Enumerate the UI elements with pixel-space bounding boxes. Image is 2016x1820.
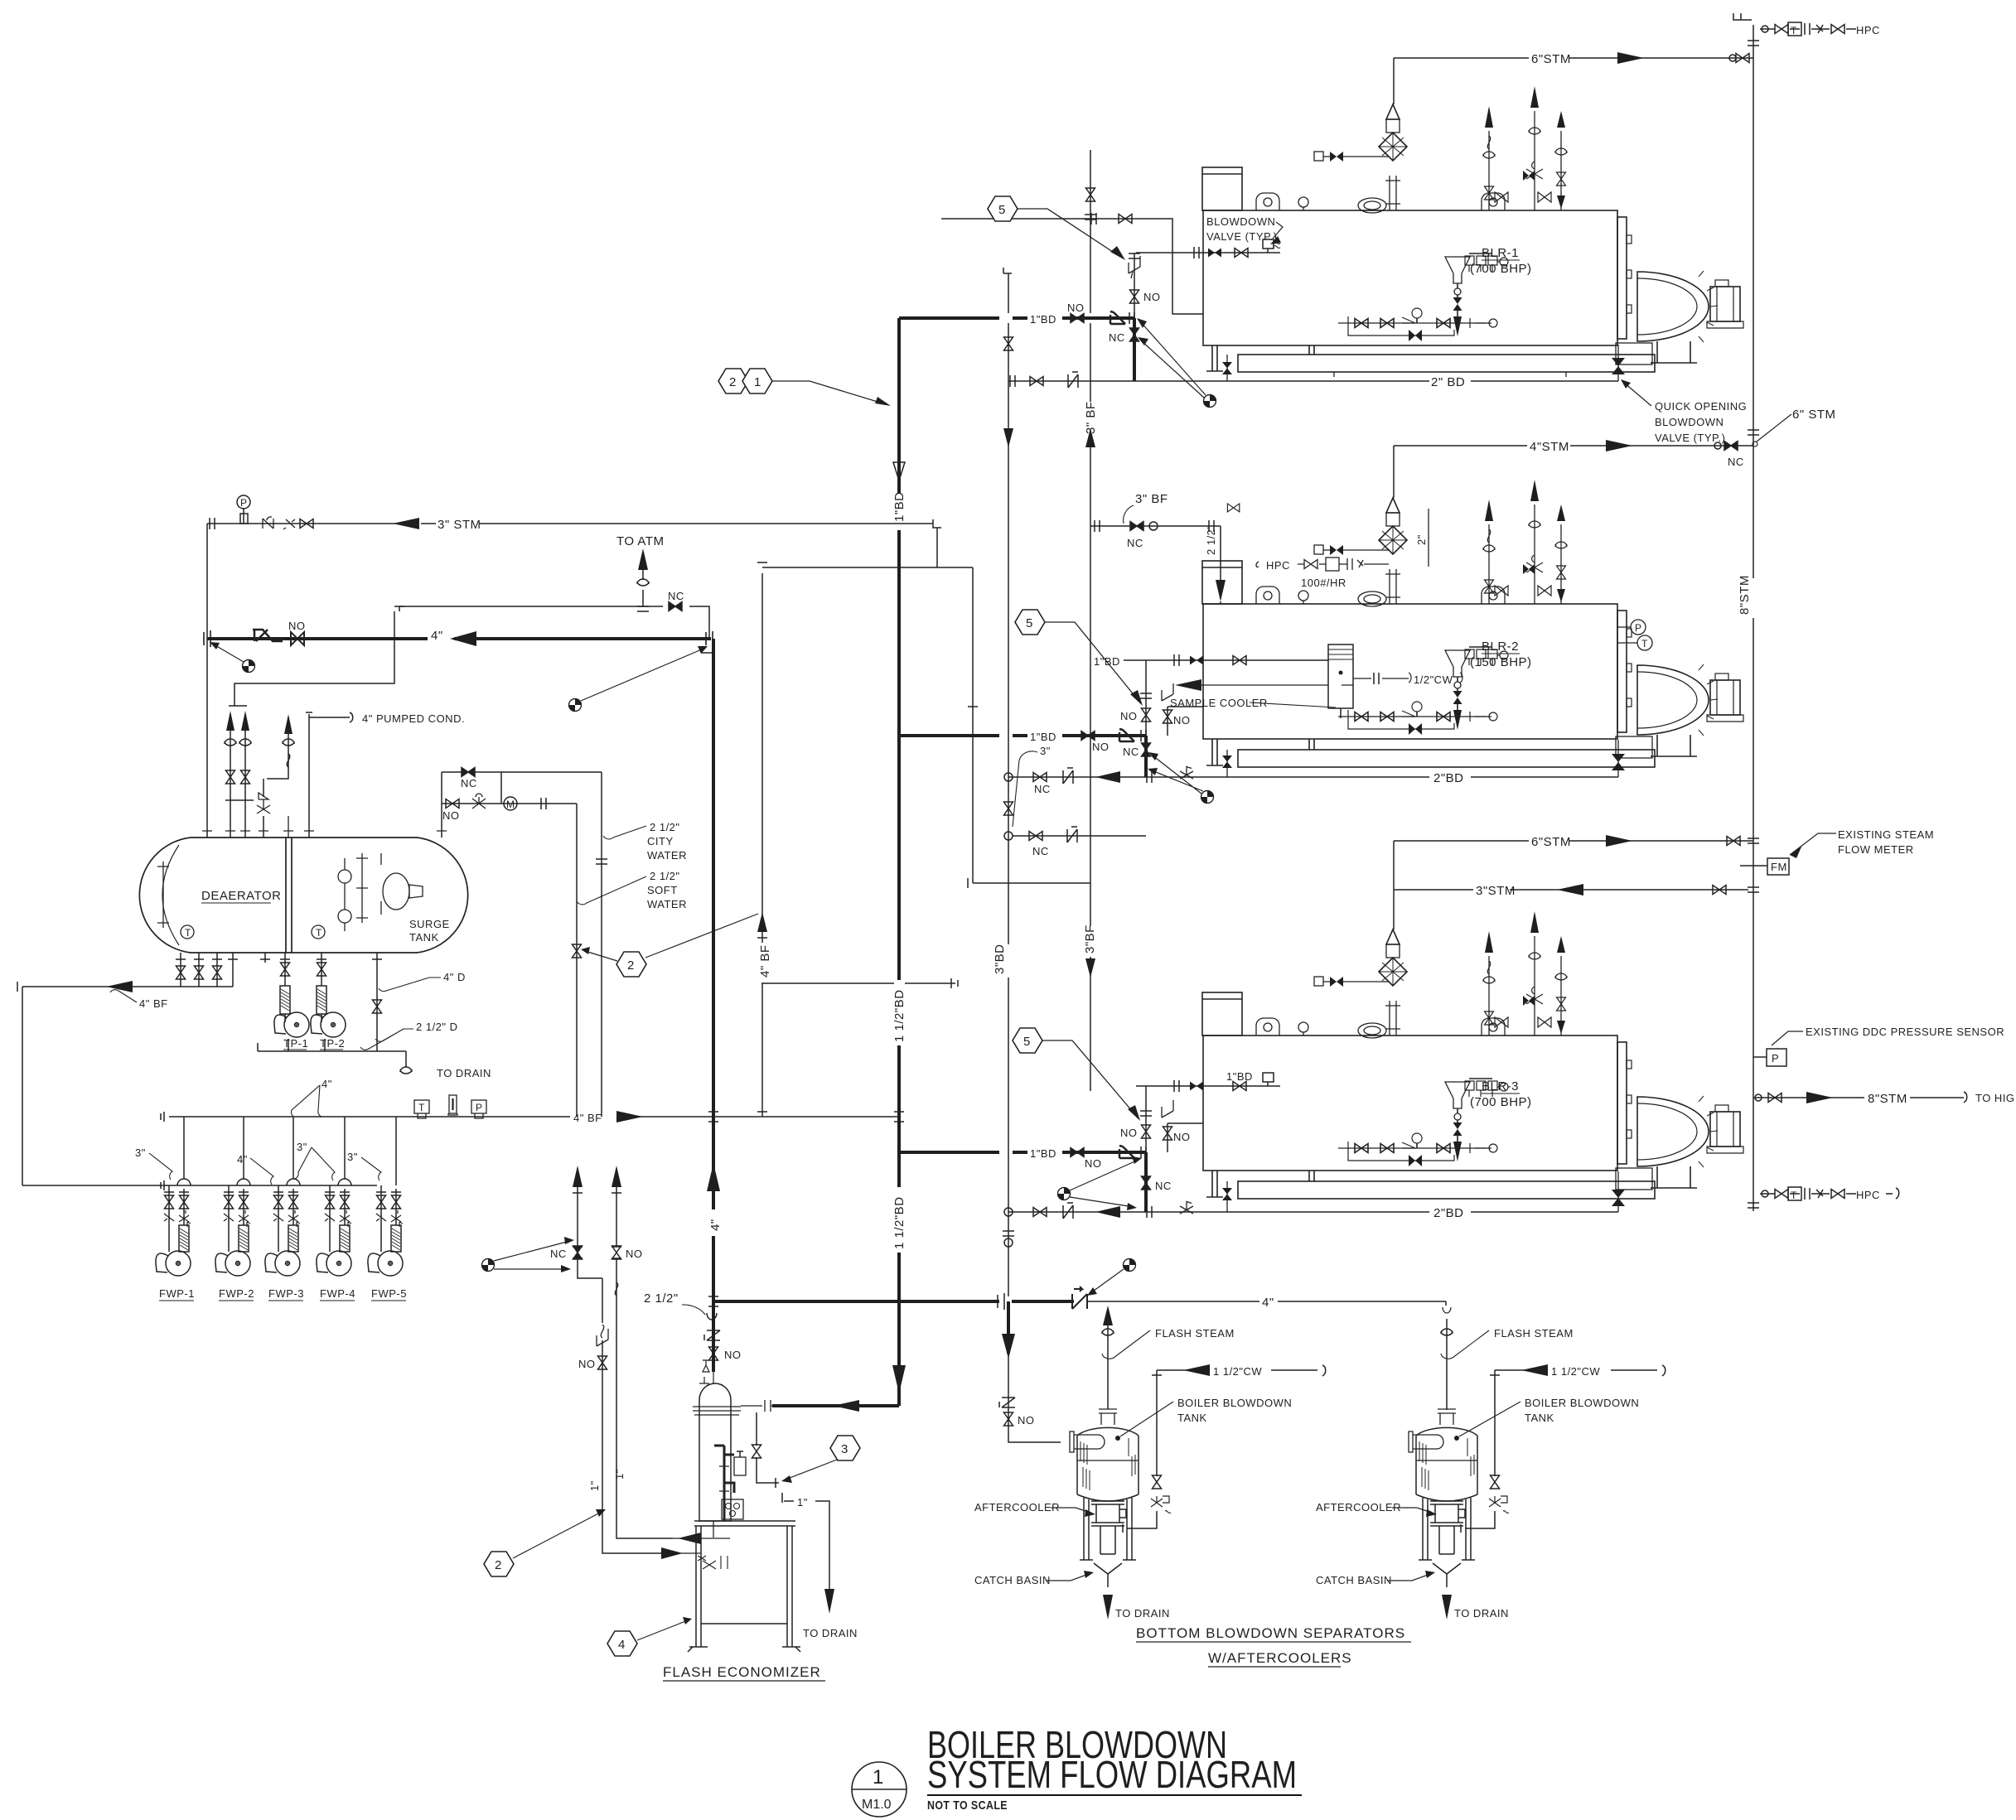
svg-text:TANK: TANK (409, 931, 439, 944)
CW line 1 (1123, 1365, 1326, 1533)
TP-1 pump (274, 1012, 309, 1037)
svg-text:2"BD: 2"BD (1433, 1206, 1464, 1220)
svg-text:NC: NC (1032, 845, 1049, 857)
BLR-2 3"BF branch (1090, 525, 1221, 527)
TP suction columns (280, 953, 326, 982)
BLR-2 skid valve (1226, 750, 1228, 777)
4"D drain column (372, 953, 382, 1051)
separator 2 drop hook (1443, 1307, 1451, 1313)
svg-text:NC: NC (668, 590, 684, 602)
3"BD vertical (1008, 273, 1009, 1296)
BLR-2 cluster (1081, 731, 1095, 741)
svg-text:FWP-4: FWP-4 (320, 1287, 355, 1300)
pump FWP-5 (368, 1189, 403, 1276)
separator 1 drop lower (1008, 1354, 1061, 1442)
3"BD valve upper (1004, 337, 1013, 350)
svg-text:M: M (506, 799, 515, 810)
boiler BLR-1 (1202, 86, 1743, 364)
svg-text:3": 3" (297, 1141, 307, 1153)
svg-text:3" BF: 3" BF (1084, 401, 1098, 434)
elbow down to BLR-3 safety stack (1393, 841, 1395, 929)
hexagon 4 (607, 1631, 637, 1656)
P instrument on header (471, 1100, 486, 1118)
target BLR-1 (1204, 395, 1216, 408)
pumped cond riser cup and squiggle (283, 739, 294, 746)
NC vent line (399, 606, 709, 639)
svg-text:4" D: 4" D (443, 971, 466, 983)
economizer drain line (752, 1412, 830, 1589)
bold 4" separator header (713, 1300, 1074, 1303)
svg-text:4"STM: 4"STM (1530, 440, 1569, 454)
leader city water (603, 826, 646, 839)
svg-text:NO: NO (1092, 741, 1110, 753)
arrow BLR-3 2BD left (1095, 1206, 1120, 1218)
separator tank 1 (1070, 1409, 1139, 1587)
arrow 3"BF up (1085, 428, 1095, 447)
svg-text:P: P (476, 1102, 482, 1113)
target on 4" line left (243, 660, 255, 673)
end flanges bold 4 line (204, 630, 714, 653)
vent cup TO ATM (637, 579, 649, 586)
BLR-2 internal blowdown line (1124, 659, 1328, 661)
svg-text:100#/HR: 100#/HR (1301, 577, 1346, 589)
BLR-1 quick opening blowdown valve (1617, 345, 1619, 381)
svg-text:P: P (1772, 1052, 1779, 1064)
BLR-1 NO vertical (1134, 253, 1135, 318)
svg-text:NO: NO (1120, 1127, 1138, 1139)
arrows economizer columns (573, 1166, 583, 1187)
bold NC drop BLR-2 (1144, 736, 1148, 777)
arrow 4"BF discharge (616, 1111, 643, 1122)
svg-text:2 1/2': 2 1/2' (1205, 527, 1217, 555)
svg-text:NO: NO (1085, 1157, 1102, 1170)
FM box tie (1740, 865, 1767, 867)
pump FWP-3 (265, 1189, 300, 1276)
svg-text:FWP-3: FWP-3 (268, 1287, 304, 1300)
svg-text:NC: NC (1034, 783, 1051, 795)
svg-text:BLR-2: BLR-2 (1482, 640, 1519, 654)
target BLR-2 (1201, 791, 1214, 804)
svg-text:FWP-2: FWP-2 (219, 1287, 254, 1300)
svg-text:1 1/2"BD: 1 1/2"BD (892, 989, 906, 1042)
svg-text:T: T (1791, 1190, 1797, 1201)
separator header thin portion (1087, 1301, 1446, 1302)
blowdown valve note BLR-1 (1206, 215, 1277, 243)
svg-text:1": 1" (797, 1496, 808, 1509)
svg-text:1: 1 (754, 375, 761, 389)
BLR-2 P and T gauges (1617, 620, 1652, 650)
svg-text:FLOW METER: FLOW METER (1838, 843, 1914, 856)
junction tick bold vertical (757, 1111, 767, 1113)
hollow arrow main BD (893, 462, 905, 480)
hexagon 2 and 1 top (718, 369, 772, 393)
bold NC drop BLR-3 (1144, 1152, 1148, 1212)
svg-text:4": 4" (1262, 1296, 1274, 1310)
deaerator internals level gauge (344, 858, 346, 910)
svg-text:5: 5 (1023, 1035, 1031, 1049)
BLR-1 2"BD glyphs (1030, 377, 1043, 386)
svg-text:4" PUMPED COND.: 4" PUMPED COND. (362, 712, 465, 725)
NO valve on 4" line (291, 632, 304, 645)
bold 4" condensate line (207, 637, 711, 640)
NO valve soft water line (446, 799, 459, 809)
3"STM line lower (1394, 889, 1748, 891)
svg-text:WATER: WATER (647, 849, 687, 862)
sight glass instrument (448, 1095, 457, 1115)
BLR-2 2"BD line (1008, 776, 1618, 778)
svg-text:NO: NO (1120, 710, 1138, 722)
svg-text:2 1/2": 2 1/2" (644, 1291, 679, 1306)
BLR-2 sample cooler (1201, 644, 1411, 718)
arrow on 3"STM (393, 518, 419, 529)
BLR-1 2"BD line (1008, 380, 1618, 382)
6"STM elbow down to BLR-1 safety stack (1393, 58, 1395, 104)
svg-text:DEAERATOR: DEAERATOR (201, 889, 281, 903)
svg-text:NO: NO (442, 809, 460, 822)
svg-text:1"BD: 1"BD (1030, 313, 1056, 326)
svg-text:FWP-1: FWP-1 (159, 1287, 195, 1300)
svg-text:1"BD: 1"BD (1226, 1070, 1253, 1083)
BLR-1 cluster (1071, 314, 1084, 323)
vent line drop left (234, 606, 404, 706)
6"STM top line (1394, 57, 1753, 59)
4" BF return line (17, 953, 238, 1185)
flash steam riser tank1 (1107, 1325, 1109, 1409)
svg-text:5: 5 (1026, 616, 1033, 630)
BLR-1 internal blowdown line (1136, 252, 1280, 253)
svg-text:NO: NO (1067, 302, 1085, 314)
NC valve city water (462, 768, 475, 777)
top vent stub (1733, 13, 1752, 20)
svg-text:NO: NO (1173, 714, 1191, 727)
svg-text:NO: NO (1173, 1131, 1191, 1143)
BLR-2 2"BD glyphs (1004, 773, 1013, 781)
BLR-3 2"BD line (1008, 1211, 1618, 1213)
main 1"BD bold vertical (897, 318, 901, 1406)
NC valve on 4"STM (1724, 442, 1738, 451)
BLR-2 skid (1238, 750, 1655, 767)
leader ddc sensor (1772, 1031, 1803, 1045)
bold 1"BD line to BLR-2 (899, 734, 1146, 737)
valves on 3"STM (263, 517, 273, 529)
8"STM branch glyphs (1755, 1094, 1762, 1101)
valve on soft water vertical (573, 944, 582, 958)
svg-text:1 1/2"CW: 1 1/2"CW (1551, 1365, 1600, 1378)
svg-text:3"BD: 3"BD (993, 944, 1007, 974)
svg-text:BOILER BLOWDOWN: BOILER BLOWDOWN (1525, 1397, 1639, 1409)
flow arrow sample cooler (1175, 679, 1201, 691)
leader quick opening (1624, 383, 1651, 406)
arrow economizer feed (833, 1400, 859, 1412)
flash steam cups (1102, 1329, 1114, 1335)
4"STM line BLR-2 (1394, 445, 1753, 447)
flow arrow 8"STM branch (1806, 1092, 1833, 1103)
svg-text:FLASH ECONOMIZER: FLASH ECONOMIZER (663, 1664, 821, 1680)
bold NC drop BLR-1 (1133, 318, 1136, 381)
discharge header end ticks (161, 1112, 164, 1190)
svg-text:WATER: WATER (647, 898, 687, 910)
lower piping into economizer (673, 1538, 701, 1553)
BLR-3 legs (1206, 1171, 1314, 1197)
svg-text:BLOWDOWN: BLOWDOWN (1655, 416, 1724, 428)
svg-text:TANK: TANK (1525, 1412, 1554, 1424)
svg-text:6" STM: 6" STM (1792, 408, 1836, 422)
cup twin risers (225, 739, 236, 746)
svg-text:TO DRAIN: TO DRAIN (803, 1627, 858, 1639)
economizer inlet columns (573, 1187, 679, 1553)
svg-text:8"STM: 8"STM (1738, 575, 1752, 615)
svg-text:SYSTEM FLOW DIAGRAM: SYSTEM FLOW DIAGRAM (927, 1753, 1297, 1796)
svg-text:2"BD: 2"BD (1433, 771, 1464, 785)
hexagon 2 right of deaerator (616, 952, 646, 977)
heat exchanger flange (693, 1407, 741, 1415)
boiler BLR-3 (1202, 911, 1743, 1190)
arrow 3"BF down lower (1085, 958, 1095, 978)
BLR-2 quick opening blowdown valve (1617, 740, 1619, 777)
svg-text:BOTTOM BLOWDOWN SEPARATORS: BOTTOM BLOWDOWN SEPARATORS (1136, 1625, 1405, 1641)
deaerator tank (139, 838, 467, 953)
svg-text:NC: NC (1123, 746, 1139, 758)
HPC bottom line (1760, 1193, 1893, 1195)
svg-text:T: T (1641, 638, 1648, 649)
V3 flange fitting (1004, 1238, 1013, 1247)
svg-text:5: 5 (998, 203, 1006, 217)
flow arrow 4"STM (1606, 440, 1632, 451)
svg-text:BLOWDOWN: BLOWDOWN (1206, 215, 1275, 228)
BLR-2 cluster upper line (1146, 660, 1203, 736)
svg-text:FLASH STEAM: FLASH STEAM (1155, 1327, 1235, 1340)
svg-text:TO DRAIN: TO DRAIN (1115, 1607, 1170, 1620)
boiler BLR-2 (1202, 480, 1743, 758)
svg-text:TO DRAIN: TO DRAIN (1454, 1607, 1509, 1620)
svg-text:M1.0: M1.0 (862, 1798, 892, 1812)
soft water vertical (576, 804, 578, 1117)
svg-text:3": 3" (1040, 745, 1051, 757)
flow arrow 3"STM lower (1557, 884, 1583, 896)
flange on separator header (998, 1293, 1004, 1310)
svg-text:1"BD: 1"BD (1030, 1147, 1056, 1160)
twin risers to deaerator (229, 706, 247, 838)
arrow down main BD bottom (892, 1365, 906, 1393)
svg-text:4": 4" (708, 1219, 723, 1231)
arrow BLR-2 2BD left (1095, 771, 1120, 783)
svg-text:3": 3" (347, 1151, 358, 1163)
flow arrow 6"STM lower (1606, 835, 1632, 847)
BLR-3 skid valve (1226, 1181, 1228, 1212)
bottom end tick (1748, 1203, 1759, 1208)
target near N valve (1124, 1259, 1136, 1272)
svg-text:(150 BHP): (150 BHP) (1470, 655, 1532, 669)
flow arrow 6"STM (1617, 52, 1644, 64)
bold 1"BD line to BLR-1 (899, 316, 1134, 320)
svg-text:(700 BHP): (700 BHP) (1470, 262, 1532, 276)
svg-text:3: 3 (841, 1442, 848, 1456)
arrow up flash steam 1 (1103, 1306, 1113, 1325)
svg-text:T: T (418, 1102, 425, 1113)
svg-text:AFTERCOOLER: AFTERCOOLER (1316, 1501, 1401, 1513)
flash steam leader curves (1102, 1330, 1150, 1359)
svg-text:TP-1: TP-1 (283, 1037, 308, 1050)
stand table (694, 1521, 795, 1526)
internal coil bold (714, 1446, 734, 1521)
FWP suction drops (169, 1185, 381, 1189)
3"BD crossover staircase (727, 519, 1090, 888)
8"STM main vertical (1753, 25, 1754, 1211)
bold 4" vertical to economizer (712, 639, 715, 1372)
stub line at 1187 (762, 978, 958, 988)
svg-text:3"BF: 3"BF (1083, 924, 1097, 953)
svg-text:NC: NC (1728, 456, 1744, 468)
BLR-1 skid (1238, 355, 1655, 372)
svg-text:2 1/2": 2 1/2" (650, 821, 680, 833)
P gauge circle (237, 495, 250, 509)
svg-text:3" STM: 3" STM (438, 518, 481, 532)
svg-text:VALVE (TYP.): VALVE (TYP.) (1655, 432, 1725, 444)
CW line 2 (1461, 1365, 1665, 1533)
valve on 3"STM lower (1713, 886, 1726, 895)
city/soft water assembly (442, 772, 602, 838)
svg-text:BOILER BLOWDOWN: BOILER BLOWDOWN (1177, 1397, 1292, 1409)
svg-text:2: 2 (495, 1558, 502, 1572)
svg-text:NC: NC (1155, 1180, 1172, 1192)
svg-text:FLASH STEAM: FLASH STEAM (1494, 1327, 1574, 1340)
svg-text:EXISTING STEAM: EXISTING STEAM (1838, 828, 1934, 841)
valve on 6"STM lower (1727, 837, 1740, 846)
M motor valve (504, 797, 517, 810)
T thermometer right (312, 925, 325, 939)
BLR-1 skid valve (1226, 355, 1228, 381)
svg-text:TO HIG: TO HIG (1975, 1092, 2015, 1104)
svg-text:T: T (185, 927, 191, 939)
svg-text:EXISTING DDC PRESSURE SENSOR: EXISTING DDC PRESSURE SENSOR (1806, 1026, 2004, 1038)
separator 2 drop (1446, 1301, 1447, 1410)
svg-text:2 1/2" D: 2 1/2" D (416, 1021, 458, 1033)
svg-text:1/2"CW: 1/2"CW (1414, 673, 1453, 686)
stub 320 (260, 953, 270, 963)
svg-text:NO: NO (1018, 1414, 1035, 1427)
svg-text:TANK: TANK (1177, 1412, 1207, 1424)
leader soft water (577, 876, 646, 905)
3" STM line to deaerator (207, 523, 727, 524)
svg-text:FM: FM (1771, 861, 1787, 873)
svg-text:NC: NC (1109, 331, 1125, 344)
svg-text:3": 3" (135, 1147, 146, 1159)
6"STM line lower (1394, 840, 1753, 842)
hexagon 3 (830, 1436, 860, 1460)
city water vertical (601, 772, 602, 1117)
BLR-2 legs (1206, 739, 1314, 765)
svg-text:2: 2 (729, 375, 737, 389)
separator 1 drop valves (999, 1398, 1015, 1407)
economizer vessel (699, 1383, 731, 1521)
svg-text:6"STM: 6"STM (1531, 835, 1571, 849)
svg-text:HPC: HPC (1856, 24, 1880, 36)
svg-text:FWP-5: FWP-5 (371, 1287, 407, 1300)
size labels suction (135, 1141, 358, 1166)
target on 4" line right (569, 699, 582, 712)
svg-text:NC: NC (550, 1248, 567, 1260)
pump FWP-1 (156, 1189, 191, 1276)
svg-text:1"BD: 1"BD (892, 491, 906, 522)
svg-text:TO DRAIN: TO DRAIN (437, 1067, 491, 1079)
svg-text:1": 1" (588, 1480, 601, 1491)
BLR-1 feed line top (941, 219, 1203, 314)
svg-text:1"BD: 1"BD (1030, 731, 1056, 743)
junction ticks on bold vertical (708, 1112, 718, 1306)
bold separator drop (1007, 1301, 1010, 1354)
3"BD top cap (1003, 268, 1012, 273)
svg-text:4: 4 (618, 1638, 626, 1652)
pump suction header (169, 1185, 377, 1186)
P sensor box (1767, 1049, 1786, 1066)
svg-text:QUICK OPENING: QUICK OPENING (1655, 400, 1747, 413)
quick opening note (1655, 400, 1747, 444)
BLR-2 3"BF branch glyphs (1130, 522, 1143, 531)
svg-text:NO: NO (1143, 291, 1161, 303)
FWP discharge risers (177, 1117, 396, 1185)
globe valve (472, 794, 486, 809)
svg-text:3" BF: 3" BF (1135, 492, 1168, 506)
flanges 8STM top (1748, 41, 1759, 46)
pumped cond riser (263, 732, 288, 838)
svg-text:8"STM: 8"STM (1868, 1092, 1907, 1106)
pump discharge header 4" BF (169, 1116, 899, 1118)
svg-text:T: T (1791, 25, 1797, 36)
pump FWP-4 (317, 1189, 351, 1276)
3"BF vertical (1090, 150, 1091, 1091)
top nozzle flanges (202, 830, 447, 832)
svg-text:SURGE: SURGE (409, 918, 450, 930)
svg-text:4" BF: 4" BF (573, 1112, 602, 1124)
HPC bottom glyphs (1762, 1190, 1768, 1197)
svg-text:NC: NC (1127, 537, 1143, 549)
regulator on coil (734, 1457, 746, 1475)
twin riser valves (226, 770, 235, 784)
svg-text:HPC: HPC (1856, 1189, 1880, 1201)
BLR-3 cluster upper line (1146, 1086, 1203, 1152)
N valve on separator header (1072, 1287, 1087, 1309)
svg-text:BLR-3: BLR-3 (1482, 1079, 1519, 1093)
internals tees (356, 853, 368, 923)
BLR-3 cluster (1071, 1148, 1084, 1157)
bold 1"BD line to BLR-3 (899, 1151, 1146, 1154)
arrow up bold vertical (707, 1163, 720, 1191)
hexagon 2 bottom (484, 1552, 514, 1576)
svg-text:P: P (1635, 622, 1641, 634)
leaders size labels (149, 1147, 381, 1185)
svg-text:2": 2" (1415, 534, 1428, 545)
8"STM branch to right (1753, 1097, 1964, 1098)
svg-text:TP-2: TP-2 (320, 1037, 345, 1050)
jog tops (573, 1193, 621, 1258)
svg-text:CATCH BASIN: CATCH BASIN (974, 1574, 1051, 1586)
svg-text:(700 BHP): (700 BHP) (1470, 1095, 1532, 1109)
hexagon 5 BLR-1 (988, 196, 1018, 221)
deaerator PRV (257, 793, 270, 813)
T instrument on header (414, 1100, 429, 1118)
svg-text:4" BF: 4" BF (758, 944, 772, 978)
svg-text:2 1/2": 2 1/2" (650, 870, 680, 882)
left drain group (181, 953, 217, 987)
svg-text:CITY: CITY (647, 835, 674, 847)
FM box (1767, 858, 1789, 875)
svg-text:4": 4" (321, 1078, 332, 1090)
svg-text:3"STM: 3"STM (1476, 884, 1516, 898)
svg-text:1 1/2"BD: 1 1/2"BD (892, 1196, 906, 1249)
NC valve on vent line (669, 602, 682, 611)
riser to deaerator level control (757, 573, 767, 1117)
arrow 4BF return (106, 981, 133, 992)
